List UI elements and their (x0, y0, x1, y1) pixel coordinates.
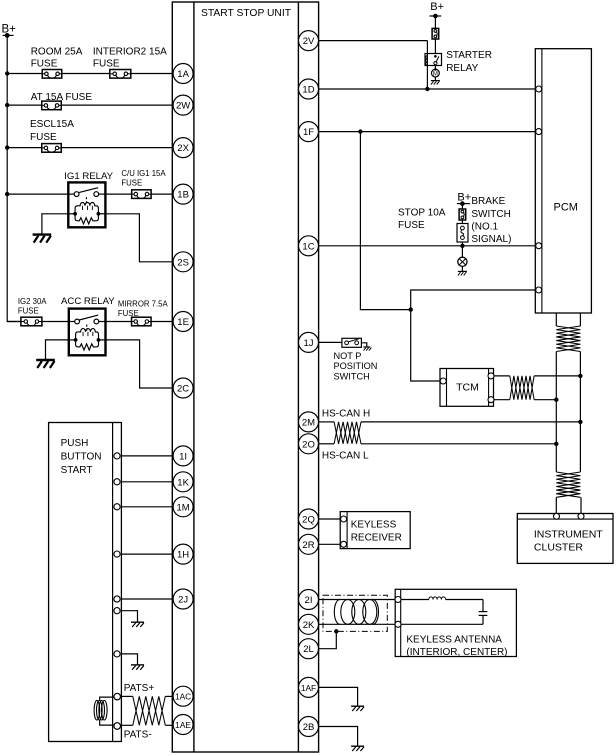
pin 2W (173, 95, 193, 115)
pin 2L (299, 639, 319, 659)
svg-text:2L: 2L (303, 644, 314, 655)
svg-text:FUSE: FUSE (121, 178, 142, 187)
starter relay coil line (426, 41, 428, 89)
wire B+ bus (7, 35, 20, 321)
svg-text:FUSE: FUSE (18, 307, 39, 316)
wire 1D to PCM (319, 88, 536, 90)
relay IG1 (68, 182, 105, 227)
ground 1AF (351, 706, 364, 711)
pin switch 1I (114, 453, 120, 459)
label ACC RELAY (61, 296, 115, 307)
label AT 15A FUSE (31, 92, 93, 103)
fuse INTERIOR2 15A (110, 70, 131, 79)
svg-text:1H: 1H (177, 550, 189, 561)
junction on 1A line (5, 71, 9, 75)
svg-text:AT 15A FUSE: AT 15A FUSE (31, 92, 93, 103)
ground not P switch (363, 347, 371, 351)
ground starter motor (431, 81, 440, 85)
svg-text:KEYLESS: KEYLESS (351, 520, 397, 531)
coil PATS transceiver (94, 700, 107, 720)
svg-text:ACC RELAY: ACC RELAY (61, 296, 115, 307)
junction HS-CAN L bus (554, 442, 558, 446)
fuse C/U IG1 15A (132, 190, 151, 199)
pin antenna bottom (395, 621, 401, 627)
fuse MIRROR 7.5A (132, 317, 152, 326)
wire ground point to ground (461, 266, 463, 271)
node B+ starter (430, 1, 445, 18)
pin 1E (173, 312, 193, 332)
svg-text:1M: 1M (176, 502, 189, 513)
start stop unit box (172, 2, 318, 752)
wire 1C to ground point (461, 246, 463, 257)
node B+ brake (457, 192, 471, 206)
pin 2K (299, 614, 319, 634)
pin 2V (299, 31, 319, 51)
wire 2Q lead (319, 518, 341, 520)
label ESCL15A FUSE (30, 119, 74, 143)
pin 2Q (299, 509, 319, 529)
keyless antenna box (395, 589, 516, 656)
wire IG1 coil to 2S (105, 214, 173, 262)
pin 1AE (173, 715, 193, 735)
wire fuse to starter relay (434, 39, 436, 54)
label PATS- (124, 730, 152, 741)
svg-text:SIGNAL): SIGNAL) (471, 234, 511, 245)
wire PATS coil top (100, 697, 118, 701)
pin 2R (299, 534, 319, 554)
svg-text:PATS+: PATS+ (124, 683, 155, 694)
wire to 1K (121, 481, 173, 483)
wire to 1H (121, 553, 173, 555)
pin switch 1H (114, 551, 120, 557)
wire 1F branch (360, 132, 535, 381)
wire HS-CAN H (361, 421, 580, 423)
twisted pair HS-CAN (334, 422, 361, 444)
svg-text:2B: 2B (303, 722, 315, 733)
ground IG1 relay (33, 235, 52, 243)
svg-text:HS-CAN H: HS-CAN H (322, 409, 370, 420)
pin 1C (299, 236, 319, 256)
label TCM (456, 382, 479, 394)
svg-text:1AC: 1AC (175, 692, 191, 702)
svg-text:IG2 30A: IG2 30A (18, 297, 47, 306)
svg-text:2O: 2O (302, 439, 315, 450)
svg-text:1C: 1C (302, 241, 314, 252)
push button start box (49, 423, 122, 742)
pin TCM left (440, 378, 446, 384)
svg-text:PCM: PCM (554, 201, 578, 213)
twisted pair TCM (510, 376, 534, 400)
wire TCM H lead (494, 375, 510, 377)
wire 1C to PCM (319, 245, 536, 247)
pin 2I (299, 590, 319, 610)
wire 2R lead (319, 543, 341, 545)
svg-text:SWITCH: SWITCH (334, 371, 370, 381)
svg-text:TCM: TCM (456, 382, 479, 394)
wire switch ground 1 (121, 611, 137, 622)
pin 1AC (173, 686, 193, 706)
wire to 1M (121, 506, 173, 508)
pin switch 1K (114, 479, 120, 485)
wire ACC coil to 2C (106, 340, 174, 388)
TCM box (440, 369, 494, 407)
svg-text:FUSE: FUSE (398, 220, 425, 231)
twisted pair PATS (133, 696, 166, 725)
pin TCM right H (488, 373, 494, 379)
antenna bottom wire (401, 623, 483, 625)
svg-text:2Q: 2Q (302, 515, 315, 526)
wire to 2X (7, 147, 173, 149)
pin PATS- (114, 723, 121, 730)
junction TCM L bus (554, 398, 558, 402)
junction on 1B line (5, 192, 9, 196)
svg-text:PUSH: PUSH (61, 438, 89, 449)
antenna coil L (401, 597, 483, 611)
pin 1K (173, 472, 193, 492)
svg-text:BUTTON: BUTTON (61, 451, 102, 462)
svg-text:FUSE: FUSE (31, 58, 58, 69)
svg-text:2X: 2X (177, 143, 189, 154)
svg-text:1A: 1A (177, 69, 189, 80)
wire bus to IG2 fuse (7, 321, 69, 323)
wire 1F to PCM (319, 131, 536, 133)
pin 1D (299, 79, 319, 99)
wire 2M lead (319, 421, 335, 423)
svg-text:ESCL15A: ESCL15A (30, 119, 74, 130)
svg-text:NOT P: NOT P (334, 351, 362, 361)
pin switch 1M (114, 504, 120, 510)
ground point circle (458, 257, 467, 266)
pin 1F (299, 122, 319, 142)
svg-text:RELAY: RELAY (446, 63, 478, 74)
label MIRROR 7.5A FUSE (118, 299, 169, 318)
svg-text:INSTRUMENT: INSTRUMENT (534, 528, 603, 540)
fuse AT 15A (42, 101, 62, 110)
label STOP 10A FUSE (398, 208, 446, 231)
fuse ESCL 15A (42, 144, 62, 153)
fuse starter 30A (432, 28, 439, 39)
wire motor to ground (434, 77, 436, 80)
svg-text:PATS-: PATS- (124, 730, 152, 741)
pin 2O (299, 434, 319, 454)
node B+ battery (2, 24, 17, 38)
wire 2I antenna (319, 599, 396, 601)
label INSTRUMENT CLUSTER (534, 528, 603, 553)
PCM box (535, 49, 591, 313)
pin TCM right L (488, 397, 494, 403)
brake switch NO.1 (457, 224, 468, 243)
svg-text:1J: 1J (303, 338, 313, 349)
wire IG1 coil to ground (42, 214, 68, 234)
ground push button 2 (131, 665, 144, 670)
label IG1 RELAY (64, 171, 113, 182)
ground push button 1 (131, 622, 144, 627)
svg-text:KEYLESS ANTENNA: KEYLESS ANTENNA (406, 635, 502, 646)
wire 2O lead (319, 443, 335, 445)
wire 1AF to ground (319, 687, 358, 705)
svg-text:SWITCH: SWITCH (471, 209, 510, 220)
wire TCM H to bus (534, 375, 580, 377)
fuse ROOM 25A (42, 70, 62, 79)
pin switch ground 1 (114, 608, 120, 614)
wire to 2J (121, 598, 173, 600)
wire switch ground 2 (121, 654, 137, 665)
wire 1AC lead (121, 695, 174, 697)
svg-text:FUSE: FUSE (93, 58, 120, 69)
pin receiver 2R (341, 541, 347, 547)
label PATS+ (124, 683, 155, 694)
wire brake switch to 1C line (461, 242, 463, 246)
svg-text:ROOM 25A: ROOM 25A (31, 47, 83, 58)
wire CAN pair middle (556, 352, 580, 473)
label KEYLESS RECEIVER (351, 520, 402, 544)
svg-text:2C: 2C (177, 384, 189, 395)
relay ACC (69, 309, 106, 356)
svg-text:FUSE: FUSE (30, 132, 57, 143)
svg-text:2I: 2I (305, 595, 313, 606)
pin PCM 1D (536, 86, 542, 92)
wire 2K antenna (319, 623, 396, 625)
label STARTER RELAY (446, 50, 492, 74)
pin 1I (173, 446, 193, 466)
svg-text:M: M (433, 71, 438, 77)
svg-text:1D: 1D (302, 85, 314, 96)
wire TCM L to bus (534, 399, 556, 401)
ground 2B (351, 746, 364, 751)
svg-text:POSITION: POSITION (334, 361, 378, 371)
pin 1M (173, 497, 193, 517)
svg-text:(INTERIOR, CENTER): (INTERIOR, CENTER) (406, 647, 507, 658)
ground brake switch (458, 271, 467, 275)
pin 2M (299, 412, 319, 432)
label KEYLESS ANTENNA (406, 635, 507, 658)
label INTERIOR2 15A FUSE (93, 47, 167, 70)
wire relay to motor (434, 66, 436, 70)
wire switch to ground (361, 343, 366, 347)
junction TCM H bus (578, 374, 582, 378)
svg-text:HS-CAN L: HS-CAN L (322, 451, 369, 462)
label ROOM 25A FUSE (31, 47, 83, 70)
svg-text:B+: B+ (457, 192, 471, 204)
svg-text:FUSE: FUSE (118, 309, 139, 318)
wire CAN pair lower (556, 497, 581, 513)
svg-text:C/U IG1 15A: C/U IG1 15A (121, 169, 166, 178)
pin 1J (299, 332, 319, 352)
pin antenna top (395, 597, 401, 603)
svg-text:BRAKE: BRAKE (471, 196, 505, 207)
svg-text:1I: 1I (179, 451, 187, 462)
wire to 1A (7, 73, 173, 75)
junction 1F branch (358, 129, 362, 133)
pin 1H (173, 544, 193, 564)
keyless receiver box (340, 512, 410, 549)
svg-text:START: START (61, 465, 93, 476)
junction brake on 1C (460, 244, 464, 248)
fuse IG2 30A (21, 317, 42, 326)
svg-text:STARTER: STARTER (446, 50, 492, 61)
junction starter on 1D (425, 87, 429, 91)
label PCM (554, 201, 578, 213)
svg-text:2S: 2S (177, 257, 189, 268)
pin switch ground 2 (114, 651, 120, 657)
svg-text:1E: 1E (177, 317, 189, 328)
wire 1J to switch (319, 341, 342, 343)
motor M starter (432, 68, 440, 77)
pin 2B (299, 717, 319, 737)
junction HS-CAN H bus (578, 420, 582, 424)
wire TCM L lead (494, 399, 510, 401)
pin 1AF (299, 677, 319, 697)
svg-text:CLUSTER: CLUSTER (534, 541, 583, 553)
pin 2J (173, 589, 193, 609)
svg-text:STOP 10A: STOP 10A (398, 208, 446, 219)
wire PATS coil bottom (100, 720, 118, 725)
label C/U IG1 15A FUSE (121, 169, 166, 187)
svg-text:(NO.1: (NO.1 (471, 222, 498, 233)
wire HS-CAN L (361, 443, 556, 445)
svg-text:1AF: 1AF (301, 683, 316, 693)
fuse STOP 10A (459, 209, 466, 220)
wire to 2W (7, 104, 173, 106)
svg-text:2M: 2M (302, 417, 315, 428)
pin 1B (173, 184, 193, 204)
wire ACC to fuse (106, 321, 174, 323)
junction 1F branch node (409, 307, 413, 311)
pin PCM 1C (536, 243, 542, 249)
label PUSH BUTTON START (61, 438, 102, 476)
pin 2X (173, 138, 193, 158)
junction shield 2L (334, 629, 338, 633)
svg-text:1AE: 1AE (175, 720, 191, 730)
switch NOT P POSITION (342, 338, 362, 347)
wire B+ to starter fuse (434, 16, 436, 28)
label BRAKE SWITCH NO.1 SIGNAL (471, 196, 511, 245)
svg-text:2K: 2K (303, 620, 315, 631)
svg-text:B+: B+ (430, 1, 444, 13)
svg-text:IG1 RELAY: IG1 RELAY (64, 171, 113, 182)
svg-text:2V: 2V (303, 36, 315, 47)
label HS-CAN H (322, 409, 370, 420)
svg-text:1F: 1F (303, 127, 314, 138)
antenna capacitor C (479, 612, 488, 625)
twisted pair CAN lower (556, 472, 580, 497)
pin cluster L (578, 513, 584, 519)
svg-text:START STOP UNIT: START STOP UNIT (201, 8, 292, 19)
svg-text:1K: 1K (177, 477, 189, 488)
twisted pair CAN upper (556, 326, 580, 352)
pin cluster H (554, 513, 560, 519)
wire IG1 to fuse (105, 193, 173, 195)
wire to 1I (121, 455, 173, 457)
label HS-CAN L (322, 451, 369, 462)
svg-text:2R: 2R (302, 540, 314, 551)
wire bus to IG1 relay (7, 193, 68, 195)
relay STARTER box (425, 54, 442, 66)
wire 2L to shield (319, 631, 336, 648)
wire 1AE lead (121, 724, 174, 726)
pin PCM 1F (536, 129, 542, 135)
ground ACC relay (36, 360, 55, 368)
wire stop fuse to brake switch (461, 220, 463, 224)
svg-text:RECEIVER: RECEIVER (351, 532, 402, 543)
antenna cable coil (334, 600, 378, 625)
wire 2B to ground (319, 727, 358, 746)
shield antenna cable (323, 595, 387, 631)
label NOT P POSITION SWITCH (334, 351, 378, 382)
junction on 2X line (5, 145, 9, 149)
wire ACC coil to ground (46, 340, 69, 360)
svg-text:MIRROR 7.5A: MIRROR 7.5A (118, 299, 169, 308)
junction on 2W line (5, 103, 9, 107)
wire B+ to stop fuse (461, 204, 463, 209)
pin 2S (173, 252, 193, 272)
wire 2V to starter relay (319, 40, 428, 42)
pin PATS+ (114, 693, 121, 700)
svg-text:INTERIOR2 15A: INTERIOR2 15A (93, 47, 167, 58)
pin switch 2J (114, 596, 120, 602)
start stop unit label (201, 8, 292, 19)
label IG2 30A FUSE (18, 297, 47, 316)
svg-text:2J: 2J (178, 595, 188, 606)
instrument cluster box (517, 514, 613, 564)
wire CAN pair upper (556, 313, 580, 326)
pin 1A (173, 64, 193, 84)
svg-text:1B: 1B (177, 190, 189, 201)
pin PCM TCM-line (536, 287, 542, 293)
pin receiver 2Q (341, 516, 347, 522)
pin 2C (173, 378, 193, 398)
svg-text:2W: 2W (176, 101, 190, 112)
